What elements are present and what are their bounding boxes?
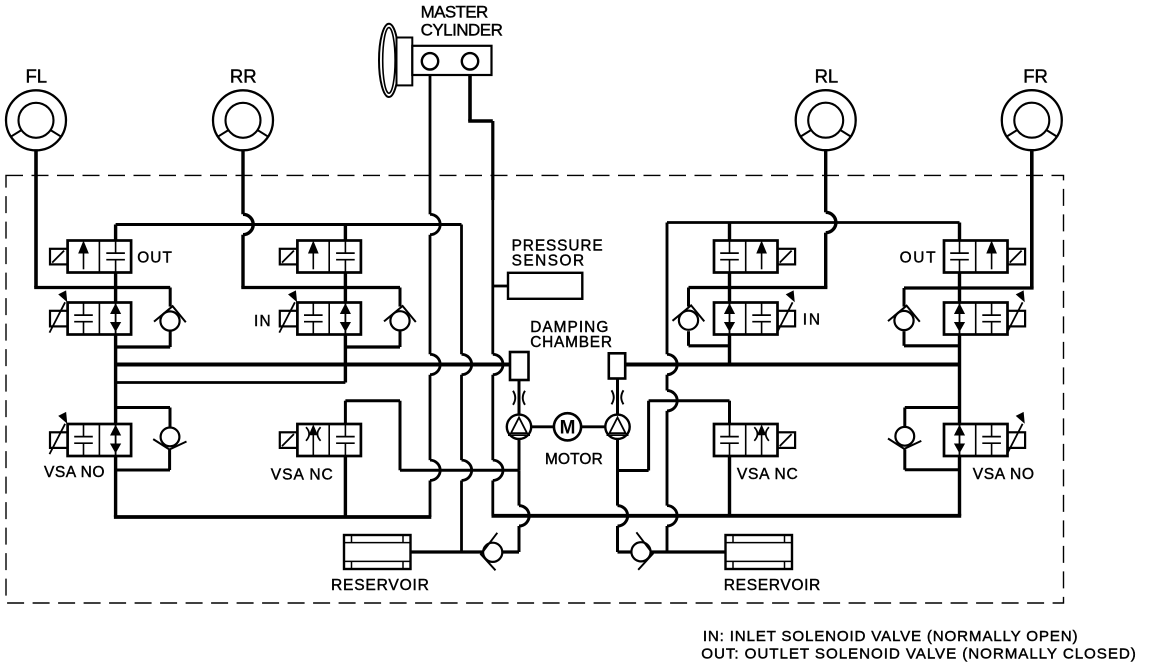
- svg-text:RL: RL: [815, 66, 839, 87]
- svg-text:SENSOR: SENSOR: [512, 252, 584, 269]
- svg-text:RR: RR: [230, 66, 257, 87]
- svg-text:RESERVOIR: RESERVOIR: [331, 577, 429, 594]
- svg-text:OUT: OUT: [137, 250, 172, 267]
- svg-text:IN: IN: [254, 313, 271, 330]
- svg-text:VSA NC: VSA NC: [271, 467, 333, 484]
- svg-text:OUT: OUT: [900, 250, 936, 267]
- svg-text:IN: IN: [803, 312, 820, 329]
- svg-text:MASTER: MASTER: [421, 3, 489, 22]
- svg-text:M: M: [560, 417, 576, 438]
- svg-text:VSA NO: VSA NO: [973, 466, 1034, 483]
- svg-text:MOTOR: MOTOR: [545, 451, 603, 468]
- svg-text:OUT: OUTLET SOLENOID VALVE (NO: OUT: OUTLET SOLENOID VALVE (NORMALLY CLO…: [701, 646, 1135, 663]
- svg-text:CHAMBER: CHAMBER: [530, 334, 612, 351]
- svg-text:IN: INLET SOLENOID VALVE (NORM: IN: INLET SOLENOID VALVE (NORMALLY OPEN): [703, 628, 1078, 645]
- svg-text:CYLINDER: CYLINDER: [421, 20, 503, 39]
- svg-text:FL: FL: [26, 66, 48, 87]
- svg-text:RESERVOIR: RESERVOIR: [724, 577, 821, 594]
- svg-text:VSA NC: VSA NC: [737, 466, 798, 483]
- svg-text:FR: FR: [1023, 66, 1048, 87]
- svg-text:VSA NO: VSA NO: [44, 464, 105, 481]
